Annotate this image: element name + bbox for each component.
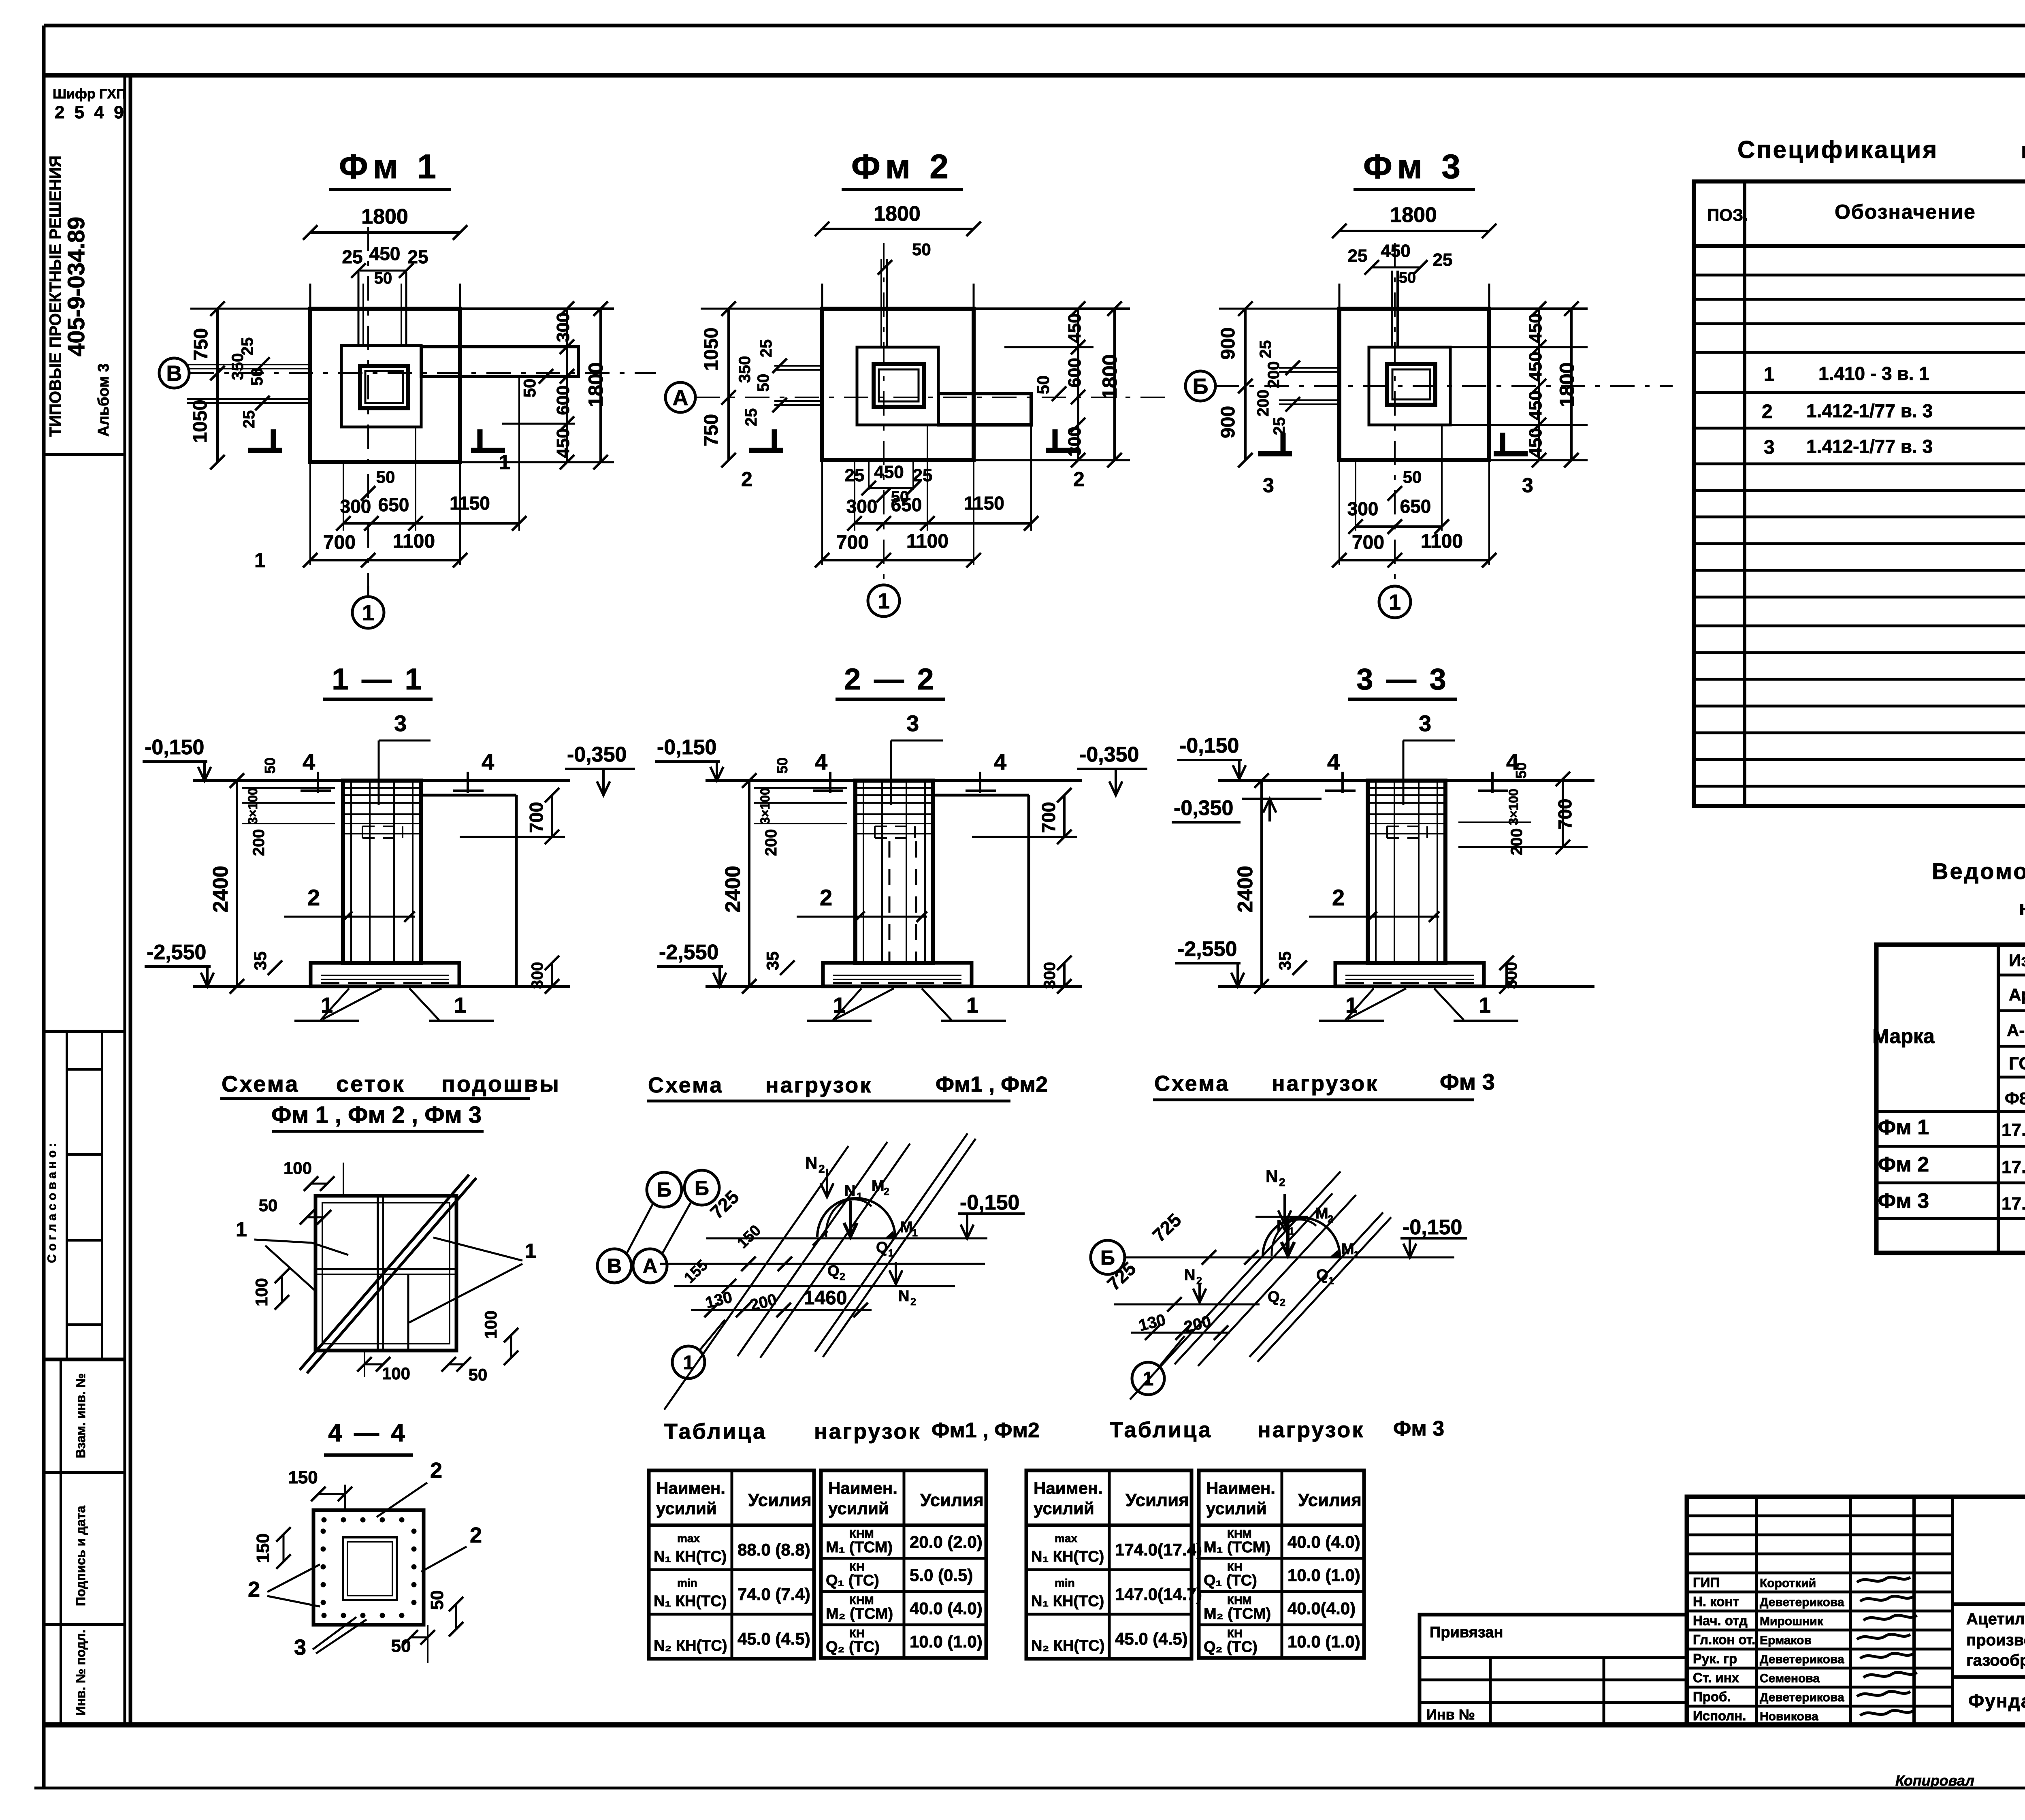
svg-text:1 — 1: 1 — 1 (332, 662, 424, 696)
svg-text:1: 1 (1289, 1226, 1294, 1237)
svg-text:2: 2 (307, 885, 320, 910)
svg-text:Обозначение: Обозначение (1835, 201, 1976, 223)
svg-text:2400: 2400 (1234, 866, 1257, 913)
svg-text:Наимен.: Наимен. (828, 1479, 897, 1498)
svg-text:50: 50 (912, 240, 931, 259)
svg-text:Q₂ (ТС): Q₂ (ТС) (1204, 1639, 1258, 1656)
svg-text:нагрузок: нагрузок (1272, 1071, 1379, 1096)
svg-text:Деветерикова: Деветерикова (1760, 1691, 1844, 1704)
svg-text:Схема: Схема (648, 1073, 723, 1097)
svg-text:50: 50 (774, 757, 791, 774)
svg-text:1: 1 (1354, 1249, 1359, 1261)
svg-text:Q: Q (876, 1239, 888, 1256)
svg-text:1100: 1100 (1421, 531, 1463, 552)
svg-text:min: min (677, 1577, 697, 1589)
svg-text:Новикова: Новикова (1760, 1710, 1818, 1723)
svg-text:3×100: 3×100 (758, 788, 772, 824)
svg-text:Q: Q (1268, 1289, 1280, 1306)
svg-text:N: N (805, 1153, 817, 1172)
svg-text:200: 200 (1254, 390, 1272, 417)
svg-text:Ведомость: Ведомость (1932, 858, 2025, 884)
svg-text:3: 3 (906, 711, 919, 736)
svg-text:Б: Б (1100, 1246, 1115, 1269)
svg-text:50: 50 (262, 757, 278, 774)
svg-text:25: 25 (239, 337, 256, 356)
svg-text:3: 3 (294, 1635, 306, 1660)
svg-text:2: 2 (1279, 1176, 1285, 1188)
svg-text:10.0 (1.0): 10.0 (1.0) (910, 1632, 983, 1651)
svg-text:100: 100 (252, 1278, 271, 1306)
svg-text:3×100: 3×100 (1506, 789, 1521, 825)
svg-text:сеток: сеток (336, 1071, 405, 1097)
svg-text:3: 3 (1522, 474, 1533, 497)
svg-text:50: 50 (469, 1365, 488, 1384)
svg-text:Инв №: Инв № (1426, 1706, 1475, 1723)
svg-text:40.0(4.0): 40.0(4.0) (1287, 1599, 1356, 1618)
svg-text:700: 700 (836, 532, 869, 553)
svg-text:Ермаков: Ермаков (1760, 1634, 1812, 1647)
svg-text:КН: КН (849, 1627, 864, 1640)
svg-text:Таблица: Таблица (664, 1419, 767, 1444)
svg-text:25: 25 (240, 410, 258, 429)
svg-text:50: 50 (1513, 762, 1529, 779)
svg-text:Фм 1 , Фм 2 , Фм 3: Фм 1 , Фм 2 , Фм 3 (271, 1102, 482, 1128)
svg-text:Спецификация: Спецификация (1737, 136, 1938, 163)
svg-text:10.0 (1.0): 10.0 (1.0) (1287, 1632, 1360, 1651)
svg-text:N₁ КН(ТС): N₁ КН(ТС) (1031, 1593, 1104, 1610)
svg-text:300: 300 (553, 312, 573, 342)
svg-text:нагрузок: нагрузок (814, 1419, 921, 1444)
svg-text:N: N (1184, 1267, 1195, 1284)
svg-text:N: N (1266, 1167, 1278, 1186)
svg-text:2: 2 (430, 1458, 442, 1483)
svg-text:17.9: 17.9 (2002, 1120, 2025, 1140)
svg-text:700: 700 (323, 532, 356, 553)
svg-text:2: 2 (248, 1577, 260, 1602)
svg-text:М: М (1341, 1241, 1354, 1258)
svg-text:900: 900 (1217, 406, 1239, 438)
svg-text:50: 50 (755, 374, 772, 392)
svg-text:20.0 (2.0): 20.0 (2.0) (910, 1532, 983, 1551)
svg-text:N₂ КН(ТС): N₂ КН(ТС) (1031, 1637, 1104, 1654)
svg-text:Фм 3: Фм 3 (1393, 1417, 1444, 1440)
svg-text:Q₂ (ТС): Q₂ (ТС) (826, 1639, 880, 1656)
svg-text:700: 700 (526, 802, 547, 833)
svg-text:1: 1 (878, 589, 890, 613)
svg-text:4: 4 (815, 749, 827, 775)
svg-text:1: 1 (321, 993, 333, 1018)
svg-text:Арматура класса: Арматура класса (2009, 985, 2025, 1004)
svg-text:4 — 4: 4 — 4 (328, 1419, 407, 1447)
svg-text:1460: 1460 (804, 1287, 847, 1309)
svg-text:2: 2 (840, 1271, 845, 1282)
svg-text:2: 2 (820, 885, 832, 910)
svg-text:35: 35 (1275, 952, 1294, 971)
svg-text:300: 300 (1503, 962, 1520, 989)
svg-text:-0,350: -0,350 (1174, 796, 1233, 820)
svg-text:1: 1 (1389, 590, 1401, 614)
svg-text:Ст. инх: Ст. инх (1693, 1670, 1739, 1685)
svg-text:25: 25 (1270, 417, 1288, 435)
svg-text:650: 650 (891, 494, 922, 515)
svg-text:2: 2 (1328, 1214, 1333, 1225)
svg-text:усилий: усилий (1034, 1499, 1094, 1518)
svg-text:900: 900 (1217, 327, 1239, 360)
svg-text:В: В (607, 1255, 622, 1277)
svg-text:Фм 1: Фм 1 (1878, 1116, 1929, 1139)
svg-text:на: на (2019, 896, 2025, 919)
svg-text:300: 300 (1041, 962, 1059, 989)
svg-text:Гл.кон от.: Гл.кон от. (1693, 1632, 1755, 1647)
svg-text:Нач. отд: Нач. отд (1693, 1613, 1748, 1628)
svg-text:-0,350: -0,350 (1079, 743, 1139, 766)
svg-text:4: 4 (1327, 749, 1340, 775)
svg-text:-0,350: -0,350 (567, 743, 627, 766)
svg-text:М: М (900, 1219, 913, 1236)
svg-text:2: 2 (741, 468, 752, 491)
svg-text:Привязан: Привязан (1430, 1624, 1503, 1641)
svg-text:нагрузок: нагрузок (1258, 1418, 1364, 1442)
svg-text:450: 450 (1526, 313, 1545, 343)
svg-text:3: 3 (1263, 474, 1274, 497)
svg-text:600: 600 (553, 385, 573, 415)
svg-text:Ацетиленовая станция УАС–20Г: Ацетиленовая станция УАС–20Г (1966, 1610, 2025, 1628)
svg-text:1: 1 (254, 549, 266, 572)
svg-text:Фм1 , Фм2: Фм1 , Фм2 (936, 1072, 1048, 1097)
svg-text:1: 1 (362, 601, 374, 625)
svg-text:100: 100 (481, 1310, 500, 1339)
svg-text:2: 2 (1762, 401, 1773, 422)
svg-text:Фм 2: Фм 2 (1878, 1153, 1929, 1176)
svg-text:1800: 1800 (1390, 203, 1437, 227)
svg-text:Н. конт: Н. конт (1693, 1594, 1739, 1609)
svg-text:А: А (673, 386, 688, 410)
svg-text:50: 50 (1034, 376, 1053, 395)
svg-text:Семенова: Семенова (1760, 1672, 1820, 1685)
svg-text:Б: Б (657, 1178, 671, 1201)
svg-text:450: 450 (1526, 428, 1545, 457)
svg-text:1.412-1/77 в. 3: 1.412-1/77 в. 3 (1806, 400, 1933, 421)
svg-text:2 5 4 9: 2 5 4 9 (55, 102, 126, 122)
svg-text:1: 1 (966, 993, 978, 1018)
svg-text:1: 1 (683, 1352, 694, 1374)
svg-text:-0,150: -0,150 (1403, 1216, 1462, 1239)
svg-text:КНМ: КНМ (1227, 1528, 1252, 1540)
svg-text:С о г л а с о в а н о :: С о г л а с о в а н о : (45, 1143, 59, 1263)
svg-text:1: 1 (1143, 1368, 1154, 1390)
svg-text:700: 700 (1038, 802, 1059, 833)
svg-text:Шифр ГХП: Шифр ГХП (53, 86, 126, 102)
svg-text:ГОСТ 5781- 82: ГОСТ 5781- 82 (2009, 1054, 2025, 1073)
svg-text:N₁ КН(ТС): N₁ КН(ТС) (1031, 1548, 1104, 1565)
svg-text:2: 2 (1073, 468, 1085, 491)
svg-text:450: 450 (369, 243, 401, 264)
svg-text:Фм 1: Фм 1 (339, 147, 441, 186)
svg-text:Наимен.: Наимен. (1206, 1479, 1275, 1498)
svg-text:усилий: усилий (1206, 1499, 1267, 1518)
svg-text:Б: Б (695, 1177, 709, 1199)
svg-text:3 — 3: 3 — 3 (1356, 662, 1448, 696)
svg-text:25: 25 (1257, 340, 1275, 358)
svg-text:Таблица: Таблица (1110, 1418, 1212, 1442)
svg-text:50: 50 (1403, 467, 1422, 486)
svg-text:Фм 3: Фм 3 (1363, 147, 1465, 186)
svg-text:1: 1 (1345, 993, 1358, 1018)
svg-text:Взам. инв. №: Взам. инв. № (73, 1373, 88, 1458)
svg-text:1100: 1100 (906, 531, 949, 552)
svg-text:2: 2 (1280, 1297, 1285, 1308)
svg-text:450: 450 (1526, 390, 1545, 420)
svg-text:174.0(17.4): 174.0(17.4) (1115, 1540, 1202, 1559)
svg-text:45.0 (4.5): 45.0 (4.5) (1115, 1629, 1188, 1648)
svg-text:КН: КН (1227, 1561, 1242, 1573)
svg-text:N₂ КН(ТС): N₂ КН(ТС) (654, 1637, 727, 1654)
svg-text:-0,150: -0,150 (960, 1191, 1019, 1214)
svg-text:350: 350 (229, 353, 247, 380)
svg-text:2: 2 (1332, 885, 1345, 910)
svg-text:1: 1 (1328, 1275, 1334, 1287)
svg-text:300: 300 (1347, 498, 1379, 519)
svg-text:4: 4 (994, 749, 1006, 775)
svg-text:Марка: Марка (1872, 1025, 1935, 1048)
svg-text:3×100: 3×100 (245, 788, 260, 824)
svg-text:450: 450 (874, 462, 904, 482)
svg-text:2: 2 (819, 1163, 825, 1175)
svg-text:450: 450 (1381, 241, 1410, 261)
svg-text:200: 200 (1508, 828, 1526, 856)
svg-text:1800: 1800 (1098, 354, 1121, 399)
svg-text:Ф8: Ф8 (2005, 1089, 2025, 1108)
svg-text:1050: 1050 (701, 328, 722, 371)
svg-text:74.0 (7.4): 74.0 (7.4) (738, 1585, 810, 1604)
svg-text:150: 150 (288, 1468, 318, 1487)
svg-text:производительностью 20 м³/ч: производительностью 20 м³/ч (1966, 1631, 2025, 1649)
svg-text:1: 1 (454, 993, 466, 1018)
svg-text:Q: Q (1316, 1267, 1328, 1284)
svg-text:Фундаменты: Фундаменты (1968, 1690, 2025, 1711)
svg-text:750: 750 (701, 414, 722, 446)
svg-text:-2,550: -2,550 (1177, 937, 1237, 961)
svg-text:3: 3 (1419, 711, 1431, 736)
svg-text:300: 300 (340, 496, 371, 517)
svg-text:-2,550: -2,550 (147, 941, 206, 964)
svg-text:Фм1 , Фм2: Фм1 , Фм2 (932, 1419, 1040, 1442)
svg-text:Копировал: Копировал (1895, 1772, 1974, 1789)
svg-text:В: В (166, 361, 182, 386)
svg-text:147.0(14.7): 147.0(14.7) (1115, 1585, 1202, 1604)
svg-text:45.0 (4.5): 45.0 (4.5) (738, 1629, 810, 1648)
svg-text:300: 300 (529, 962, 546, 989)
svg-text:N: N (898, 1288, 909, 1305)
svg-text:М₁ (ТСМ): М₁ (ТСМ) (1204, 1539, 1270, 1556)
svg-text:1150: 1150 (964, 493, 1004, 514)
svg-text:35: 35 (251, 952, 270, 971)
svg-text:КНМ: КНМ (1227, 1594, 1252, 1607)
svg-text:ГИП: ГИП (1693, 1575, 1720, 1590)
svg-text:2: 2 (910, 1296, 916, 1308)
svg-text:М₂ (ТСМ): М₂ (ТСМ) (1204, 1605, 1271, 1622)
svg-text:4: 4 (482, 749, 494, 775)
svg-text:Фм 3: Фм 3 (1878, 1189, 1929, 1213)
svg-text:КНМ: КНМ (849, 1594, 874, 1607)
svg-text:700: 700 (1554, 799, 1575, 830)
svg-text:2400: 2400 (721, 866, 745, 913)
svg-text:1: 1 (1764, 364, 1775, 385)
svg-text:50: 50 (520, 379, 539, 398)
svg-text:450: 450 (1065, 313, 1085, 343)
svg-text:Проб.: Проб. (1693, 1689, 1731, 1704)
svg-text:88.0 (8.8): 88.0 (8.8) (738, 1540, 810, 1559)
svg-text:1150: 1150 (450, 493, 490, 514)
svg-text:50: 50 (1399, 269, 1416, 286)
svg-text:25: 25 (913, 465, 933, 485)
svg-text:650: 650 (378, 494, 409, 515)
svg-text:max: max (677, 1532, 700, 1545)
svg-text:1800: 1800 (361, 205, 408, 228)
svg-text:Q: Q (827, 1263, 840, 1280)
svg-text:М₁ (ТСМ): М₁ (ТСМ) (826, 1539, 893, 1556)
svg-text:750: 750 (190, 328, 212, 361)
svg-text:Б: Б (1193, 374, 1209, 399)
svg-text:усилий: усилий (828, 1499, 889, 1518)
svg-text:1.412-1/77 в. 3: 1.412-1/77 в. 3 (1806, 436, 1933, 457)
svg-text:Усилия: Усилия (1298, 1490, 1362, 1510)
svg-text:нагрузок: нагрузок (765, 1073, 872, 1097)
svg-text:-2,550: -2,550 (659, 941, 718, 964)
svg-text:25: 25 (757, 339, 775, 358)
svg-text:Изделия арматурные: Изделия арматурные (2009, 951, 2025, 970)
svg-text:Короткий: Короткий (1760, 1577, 1816, 1590)
svg-text:1: 1 (1479, 993, 1491, 1018)
svg-text:1: 1 (525, 1240, 536, 1262)
svg-text:200: 200 (1265, 361, 1283, 388)
svg-text:1: 1 (912, 1227, 918, 1239)
svg-text:Инв. № подл.: Инв. № подл. (73, 1630, 88, 1715)
svg-text:усилий: усилий (656, 1499, 717, 1518)
svg-text:М: М (872, 1178, 885, 1195)
svg-text:1800: 1800 (584, 362, 607, 407)
svg-text:200: 200 (762, 829, 780, 856)
svg-text:подошвы: подошвы (441, 1071, 561, 1097)
svg-text:25: 25 (1348, 246, 1368, 266)
svg-text:405-9-034.89: 405-9-034.89 (63, 217, 90, 356)
svg-text:N₁ КН(ТС): N₁ КН(ТС) (654, 1548, 727, 1565)
svg-text:450: 450 (553, 428, 573, 458)
svg-text:300: 300 (846, 496, 878, 517)
svg-text:А-І: А-І (2007, 1021, 2025, 1040)
svg-text:Мирошник: Мирошник (1760, 1615, 1824, 1628)
svg-text:Наимен.: Наимен. (1034, 1479, 1103, 1498)
svg-text:2: 2 (470, 1523, 482, 1547)
svg-text:КН: КН (849, 1561, 864, 1573)
svg-text:17.9: 17.9 (2002, 1194, 2025, 1214)
svg-text:1800: 1800 (874, 202, 921, 226)
svg-text:Исполн.: Исполн. (1693, 1708, 1746, 1723)
svg-text:50: 50 (376, 467, 395, 486)
svg-text:1: 1 (888, 1248, 894, 1259)
svg-text:700: 700 (1352, 532, 1384, 553)
svg-text:50: 50 (374, 269, 392, 287)
svg-text:Наимен.: Наимен. (656, 1479, 725, 1498)
svg-text:10.0 (1.0): 10.0 (1.0) (1287, 1566, 1360, 1585)
svg-text:газообразного ацетилена: газообразного ацетилена (1966, 1651, 2025, 1669)
svg-text:50: 50 (259, 1196, 278, 1215)
svg-text:25: 25 (342, 246, 362, 267)
svg-text:50: 50 (427, 1590, 447, 1610)
svg-text:М: М (1315, 1205, 1328, 1222)
svg-text:ТИПОВЫЕ ПРОЕКТНЫЕ РЕШЕНИЯ: ТИПОВЫЕ ПРОЕКТНЫЕ РЕШЕНИЯ (47, 156, 64, 437)
svg-text:1.410 - 3 в. 1: 1.410 - 3 в. 1 (1818, 363, 1929, 384)
svg-text:М₂ (ТСМ): М₂ (ТСМ) (826, 1605, 893, 1622)
svg-text:25: 25 (742, 408, 760, 427)
svg-text:Q₁ (ТС): Q₁ (ТС) (826, 1572, 879, 1589)
svg-text:1050: 1050 (190, 400, 211, 443)
svg-text:КНМ: КНМ (849, 1528, 874, 1540)
svg-text:25: 25 (1433, 250, 1453, 270)
svg-text:min: min (1055, 1577, 1075, 1589)
svg-text:N: N (844, 1182, 855, 1199)
svg-text:100: 100 (382, 1364, 410, 1383)
svg-text:5.0 (0.5): 5.0 (0.5) (910, 1566, 973, 1585)
svg-text:1: 1 (236, 1218, 247, 1241)
svg-text:2 — 2: 2 — 2 (844, 662, 936, 696)
svg-text:А: А (643, 1255, 657, 1277)
svg-text:100: 100 (283, 1159, 312, 1178)
svg-text:ПОЗ.: ПОЗ. (1707, 205, 1748, 224)
svg-text:N₁ КН(ТС): N₁ КН(ТС) (654, 1593, 727, 1610)
svg-text:1100: 1100 (393, 531, 435, 552)
svg-text:-0,150: -0,150 (1179, 734, 1239, 757)
svg-text:Деветерикова: Деветерикова (1760, 1596, 1844, 1609)
svg-text:Усилия: Усилия (1125, 1490, 1189, 1510)
svg-text:Схема: Схема (1154, 1071, 1230, 1096)
svg-text:Фм 3: Фм 3 (1440, 1069, 1495, 1095)
svg-text:Деветерикова: Деветерикова (1760, 1653, 1844, 1666)
svg-text:17.9: 17.9 (2002, 1157, 2025, 1177)
svg-text:2: 2 (884, 1186, 889, 1197)
svg-text:650: 650 (1400, 496, 1431, 517)
svg-text:Усилия: Усилия (748, 1490, 812, 1510)
svg-text:Подпись и дата: Подпись и дата (73, 1506, 88, 1606)
svg-text:1: 1 (499, 451, 510, 474)
svg-text:2400: 2400 (209, 866, 232, 913)
svg-text:35: 35 (763, 952, 782, 971)
svg-text:4: 4 (303, 749, 315, 775)
svg-text:350: 350 (736, 356, 754, 383)
svg-text:1800: 1800 (1556, 362, 1578, 407)
svg-text:Фм 2: Фм 2 (851, 147, 953, 186)
svg-text:Рук. гр: Рук. гр (1693, 1651, 1737, 1666)
svg-text:Альбом 3: Альбом 3 (95, 363, 112, 437)
svg-text:Усилия: Усилия (920, 1490, 984, 1510)
svg-text:600: 600 (1065, 358, 1085, 387)
svg-text:450: 450 (1526, 352, 1545, 381)
svg-text:Схема: Схема (222, 1071, 299, 1097)
svg-text:-0,150: -0,150 (657, 736, 716, 759)
svg-text:на: на (2021, 139, 2025, 163)
svg-text:150: 150 (253, 1533, 273, 1563)
svg-text:-0,150: -0,150 (145, 736, 204, 759)
svg-text:3: 3 (394, 711, 407, 736)
svg-text:3: 3 (1764, 437, 1775, 458)
svg-text:200: 200 (250, 829, 268, 856)
svg-text:25: 25 (407, 246, 428, 267)
svg-text:КН: КН (1227, 1627, 1242, 1640)
svg-text:max: max (1055, 1532, 1077, 1545)
svg-text:1: 1 (833, 993, 845, 1018)
svg-text:Q₁ (ТС): Q₁ (ТС) (1204, 1572, 1257, 1589)
svg-text:40.0 (4.0): 40.0 (4.0) (910, 1599, 983, 1618)
